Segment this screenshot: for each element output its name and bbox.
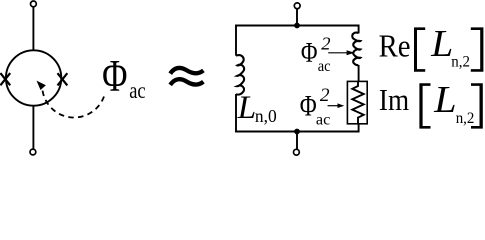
bottom terminal stub: [296, 132, 298, 150]
svg-text:n,2: n,2: [451, 53, 470, 71]
svg-text:n,2: n,2: [456, 109, 475, 127]
wire: [32, 106, 34, 149]
terminal T1 (top left, open circle): [31, 1, 37, 7]
bracket ]: [471, 27, 484, 71]
svg-text:L: L: [237, 90, 256, 126]
terminal T2 (bottom left, open circle): [30, 149, 36, 155]
bottom wire: [235, 131, 359, 133]
svg-text:Φ: Φ: [300, 90, 317, 122]
terminal T4 (bottom right): [294, 149, 300, 155]
junction dot (top): [294, 23, 300, 29]
arrow to inductor: [328, 50, 354, 55]
resistor zigzag: [352, 81, 363, 123]
label Phi_ac^2 (top): [301, 36, 318, 68]
inductor Re[L_n2] (right branch coil): [352, 33, 360, 66]
label Phi_ac^2 (bottom): [300, 90, 317, 122]
equivalent circuit: top wire: [235, 25, 359, 27]
junction dot (bottom): [294, 129, 300, 135]
bracket [: [414, 27, 425, 71]
arrow to resistor: [328, 103, 345, 108]
svg-text:2: 2: [321, 34, 330, 54]
label Im[L_n,2]: [379, 84, 410, 118]
resistor box Im[L_n2]: [347, 81, 367, 123]
svg-text:Re: Re: [379, 28, 411, 64]
svg-text:Φ: Φ: [301, 36, 318, 68]
left wire lower: [235, 94, 237, 132]
label L_n,0: [237, 90, 256, 126]
svg-text:Φ: Φ: [102, 50, 127, 101]
dashed flux arrow into SQUID: [37, 81, 105, 118]
junction X2 (right): [58, 73, 68, 85]
label Phi_ac: [102, 50, 127, 101]
wire: [32, 7, 34, 50]
inductor L_n0 (left branch coil): [236, 55, 244, 95]
bracket [: [419, 83, 430, 128]
right wire middle: [358, 65, 360, 82]
SQUID loop (circle): [6, 50, 61, 105]
svg-text:L: L: [433, 79, 456, 121]
right wire upper: [358, 25, 360, 34]
svg-text:ac: ac: [318, 57, 331, 75]
bracket ]: [471, 83, 483, 128]
svg-text:n,0: n,0: [255, 106, 277, 126]
right wire lower: [358, 124, 360, 133]
label Re[L_n,2]: [379, 28, 411, 64]
svg-text:L: L: [430, 23, 453, 65]
svg-text:Im: Im: [379, 84, 410, 118]
svg-text:ac: ac: [316, 112, 330, 129]
terminal T3 (top right): [294, 3, 300, 9]
svg-text:2: 2: [320, 85, 330, 106]
approx-equal symbol: [170, 68, 203, 85]
top terminal stub: [296, 9, 298, 26]
left wire upper: [235, 25, 237, 56]
junction X1 (left): [0, 73, 10, 85]
svg-text:ac: ac: [129, 77, 145, 104]
